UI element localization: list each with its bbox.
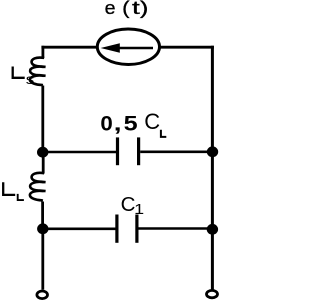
wire top-left horizontal xyxy=(41,46,97,49)
label CL subscript L xyxy=(161,130,166,137)
svg-text:C: C xyxy=(144,109,160,134)
svg-text:5: 5 xyxy=(124,111,138,135)
wire left vertical LL to node C xyxy=(41,202,44,230)
terminal right open circle xyxy=(207,290,218,297)
label LL xyxy=(3,182,15,195)
inductor LL coil xyxy=(30,173,46,201)
node D junction dot right lower xyxy=(207,224,218,235)
svg-text:0: 0 xyxy=(100,111,112,135)
svg-text:,: , xyxy=(114,111,122,135)
capacitor C1 left plate xyxy=(115,215,118,243)
svg-text:e: e xyxy=(105,0,116,18)
current source e(t) ellipse xyxy=(97,29,159,64)
node B junction dot right xyxy=(207,146,218,157)
capacitor 0,5CL left plate xyxy=(116,137,119,165)
arrow head xyxy=(101,43,120,52)
wire left vertical between Ls and node A xyxy=(41,86,44,153)
wire left vertical top xyxy=(42,46,45,58)
wire node A to capacitor 0,5CL xyxy=(43,151,117,154)
wire node C to capacitor C1 xyxy=(43,228,116,231)
wire right vertical xyxy=(211,46,214,290)
capacitor 0,5CL right plate xyxy=(137,137,140,165)
wire left vertical node C to terminal xyxy=(41,229,44,290)
node A junction dot left xyxy=(37,147,48,158)
label Ls xyxy=(13,67,25,78)
svg-text:(: ( xyxy=(122,0,129,18)
inductor Ls coil xyxy=(30,58,46,86)
svg-text:): ) xyxy=(140,0,149,18)
svg-text:t: t xyxy=(132,0,140,18)
terminal left open circle xyxy=(37,291,48,299)
wire capacitor C1 to node D xyxy=(138,227,213,230)
label LL subscript L xyxy=(18,194,24,200)
capacitor C1 right plate xyxy=(135,215,138,243)
arrow shaft inside source xyxy=(118,47,153,50)
wire capacitor 0,5CL to node B xyxy=(140,151,213,154)
node C junction dot left lower xyxy=(37,223,48,234)
wire top-right horizontal xyxy=(160,46,214,49)
wire left vertical node A to LL xyxy=(42,152,45,173)
svg-text:s: s xyxy=(26,71,35,87)
